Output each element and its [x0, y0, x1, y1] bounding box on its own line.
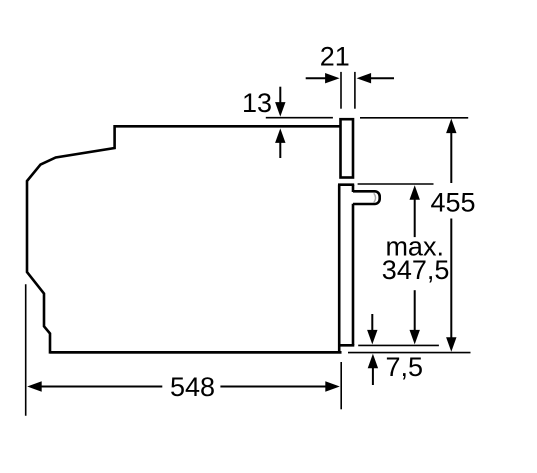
svg-text:455: 455: [430, 188, 475, 218]
svg-text:7,5: 7,5: [386, 352, 424, 382]
svg-text:21: 21: [320, 42, 350, 72]
svg-text:548: 548: [170, 372, 215, 402]
svg-text:13: 13: [242, 88, 272, 118]
svg-text:347,5: 347,5: [382, 255, 450, 285]
